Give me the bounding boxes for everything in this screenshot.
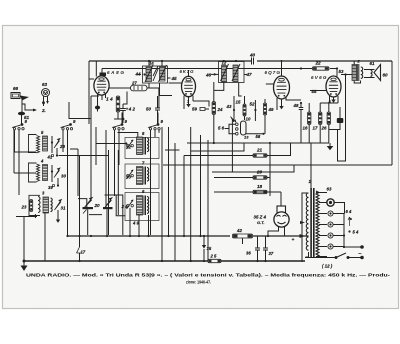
svg-text:41: 41 (47, 155, 53, 160)
capacitor C35 (202, 236, 212, 261)
svg-text:18: 18 (257, 184, 263, 189)
resistor R20 (214, 170, 270, 180)
coil L23 (21, 195, 41, 215)
svg-text:+: + (292, 238, 295, 243)
svg-text:UNDA RADIO. — Mod. « Tri Unda: UNDA RADIO. — Mod. « Tri Unda R 53|9 ». … (26, 273, 391, 278)
svg-text:31: 31 (61, 206, 66, 211)
wire antenna to node 2 (22, 104, 46, 113)
svg-text:6 V 6 G: 6 V 6 G (311, 75, 327, 80)
svg-text:5 4: 5 4 (353, 230, 359, 235)
pilot lamp 63 (42, 82, 50, 97)
svg-text:4 2: 4 2 (128, 106, 136, 111)
svg-text:6 K 7 G: 6 K 7 G (180, 69, 195, 74)
svg-text:2.: 2. (41, 108, 46, 113)
svg-text:13: 13 (244, 135, 249, 140)
label 47 (244, 72, 252, 77)
resistor R58 (192, 101, 209, 112)
switch contact leads D (151, 113, 160, 236)
band switch contact S1 (12, 119, 28, 130)
label 1 (309, 143, 312, 188)
band switch contact S4 (148, 119, 164, 130)
svg-text:50: 50 (146, 107, 151, 112)
U1 pin leads (89, 79, 131, 106)
svg-text:46: 46 (205, 73, 212, 78)
svg-text:6 A 8 G: 6 A 8 G (107, 70, 124, 75)
svg-text:s: s (350, 217, 352, 221)
coil L3 (42, 191, 52, 214)
label 4 arrow (328, 99, 332, 104)
ground U3 (279, 106, 283, 109)
svg-text:5 6: 5 6 (218, 126, 225, 131)
socket leads (334, 203, 345, 247)
rectifier U5 35Z4GT (274, 206, 289, 227)
plus node (292, 234, 306, 243)
wire x162 (161, 127, 163, 261)
wire y165 B+ line (59, 150, 393, 165)
IF transformer T2 box (219, 62, 245, 83)
svg-text:37: 37 (269, 251, 274, 256)
tube U3 6Q7G (274, 76, 290, 99)
label 2 (357, 59, 361, 64)
capacitor C40 (249, 53, 256, 65)
trimmer 32 (126, 140, 133, 150)
svg-text:20: 20 (256, 170, 263, 175)
svg-text:20: 20 (94, 203, 101, 208)
T4 tap arrow (300, 221, 305, 224)
tube U1 6A8G (94, 76, 109, 95)
svg-text:12: 12 (222, 61, 227, 66)
wire y151 (191, 143, 245, 151)
capacitor C10 blob (329, 107, 343, 130)
shield box osc stage 3 (125, 193, 159, 221)
resistor R18b lead (267, 191, 270, 193)
wire osc leads (130, 208, 149, 235)
shield box osc stage 2 (125, 164, 159, 189)
svg-text:48: 48 (293, 103, 299, 108)
U1 grid cap (96, 61, 106, 77)
contacts 41 (47, 148, 59, 160)
coil L4 (29, 159, 48, 183)
svg-text:zione: 1946-47.: zione: 1946-47. (186, 280, 211, 285)
trimmer 29 (51, 136, 66, 153)
lamp leads (42, 96, 49, 106)
label U3 (265, 70, 281, 75)
wire AVC bus (66, 235, 308, 237)
svg-text:17: 17 (81, 250, 86, 255)
wire x232 down (231, 120, 233, 172)
capacitor C36 (246, 236, 260, 261)
svg-text:10: 10 (246, 117, 251, 122)
switch contact leads B (63, 96, 99, 235)
label 13 (244, 133, 265, 140)
T2 primary winding (222, 66, 227, 83)
shield box osc stage 1 (125, 138, 159, 159)
svg-text:2 4: 2 4 (121, 204, 129, 209)
wire rect top (254, 191, 281, 193)
wire T2 leads (187, 83, 242, 104)
svg-text:45: 45 (171, 76, 178, 81)
svg-text:1a: 1a (149, 61, 154, 66)
label 54 (348, 230, 359, 235)
socket 2 (328, 211, 333, 216)
svg-text:66: 66 (13, 86, 19, 91)
U2 grid lead (169, 70, 189, 83)
contacts 39 (48, 178, 59, 190)
svg-text:55: 55 (312, 89, 317, 94)
power transformer T4 (302, 188, 319, 262)
U5 leads (268, 192, 285, 236)
resistor R14 (106, 96, 123, 119)
wire left bus drop (88, 61, 90, 124)
T1 primary winding (146, 67, 152, 82)
svg-text:40: 40 (249, 53, 256, 58)
socket 5 (328, 244, 333, 249)
label 49b (132, 221, 139, 226)
coil L6 (137, 189, 149, 215)
output transformer T3 (352, 61, 363, 83)
label 43 (226, 96, 236, 120)
label 44 (135, 72, 146, 77)
T1 secondary winding (160, 67, 166, 82)
resistor R22 (313, 61, 330, 71)
svg-text:61: 61 (370, 61, 375, 66)
label 45 (168, 76, 178, 81)
svg-text:32: 32 (126, 145, 131, 150)
socket 4 (328, 233, 333, 238)
svg-text:2 5: 2 5 (210, 254, 217, 259)
wire x184 (183, 156, 185, 236)
socket 3 (328, 222, 333, 227)
junction dots top bus (148, 60, 338, 70)
svg-text:53: 53 (339, 69, 344, 74)
resistor R21 (184, 143, 291, 157)
U2 pin leads (184, 96, 193, 110)
label U5 (254, 215, 267, 226)
coil L5 (29, 130, 48, 153)
resistor R27 (131, 81, 148, 91)
svg-text:52: 52 (250, 102, 255, 107)
tuning cap 20 (83, 198, 101, 214)
band switch contact S3 (112, 119, 128, 130)
svg-text:26: 26 (321, 126, 327, 131)
wire y172 (212, 165, 294, 172)
caption line 2 (186, 280, 211, 285)
wire x208 (207, 140, 209, 261)
wire to output transformer (338, 75, 353, 162)
band switch contact S2 (61, 119, 77, 130)
svg-text:35: 35 (207, 246, 212, 251)
volume pot 56 (218, 117, 246, 136)
svg-text:23: 23 (21, 205, 27, 210)
wire mains (305, 247, 362, 258)
capacitor C42 (114, 104, 135, 123)
IF transformer T1 box (143, 66, 168, 83)
svg-text:43: 43 (226, 104, 232, 109)
resistor R18 (214, 184, 270, 194)
svg-text:58: 58 (256, 134, 261, 139)
coil L8 (137, 131, 149, 155)
svg-text:63: 63 (42, 82, 48, 87)
tuning cap 20 leads (78, 199, 102, 235)
svg-text:21: 21 (256, 148, 263, 153)
wire left border (14, 130, 36, 173)
resistor R24 (212, 82, 223, 143)
ground main (21, 260, 28, 272)
tube U4 6V6G (326, 76, 341, 97)
label 55 (310, 89, 326, 94)
wire x200.5 (200, 135, 202, 235)
wire screen bus (102, 69, 337, 76)
trimmer 31 (55, 200, 66, 223)
mains switch 12 (322, 253, 350, 269)
svg-text:33: 33 (126, 175, 131, 180)
switch 17 (77, 247, 86, 261)
wire main ground bus (23, 260, 305, 262)
svg-text:G.T.: G.T. (257, 220, 264, 225)
svg-text:63: 63 (327, 187, 332, 192)
T1 core hatch (153, 66, 158, 81)
antenna arrow (20, 96, 29, 113)
wire x190.7 (190, 127, 192, 261)
ground U1 (95, 106, 100, 112)
svg-text:24: 24 (217, 107, 223, 112)
svg-text:42: 42 (236, 228, 242, 233)
label 10 (246, 117, 251, 122)
svg-text:1 4: 1 4 (106, 97, 113, 103)
label U1 (107, 70, 124, 75)
ground U4 (331, 100, 335, 103)
label 12 (222, 61, 227, 66)
pot 15 (236, 96, 247, 120)
svg-text:59: 59 (192, 107, 197, 112)
svg-text:27: 27 (131, 81, 137, 86)
ground U2 (186, 104, 190, 107)
shield box left (70, 149, 78, 196)
mains plug (358, 245, 364, 259)
wire x168.5 (168, 127, 170, 235)
svg-text:29: 29 (59, 144, 65, 149)
svg-text:4 9: 4 9 (132, 221, 139, 226)
wire left coil leads (16, 213, 45, 261)
switch contact leads A (15, 116, 22, 195)
svg-text:22: 22 (315, 61, 322, 66)
T2 trimmer arrows (221, 64, 241, 81)
label 1a (149, 61, 154, 66)
resistor R25 (208, 254, 221, 263)
socket 63 (327, 187, 335, 207)
capacitor C50 (146, 96, 160, 124)
svg-text:6 4: 6 4 (346, 209, 352, 214)
wire sec leads (316, 193, 327, 257)
trimmer 33 (126, 170, 133, 180)
wire x344 drop (343, 214, 345, 249)
svg-text:17: 17 (313, 126, 318, 131)
capacitor C37 (263, 236, 274, 261)
tuning cap 2nd (103, 198, 113, 209)
svg-text:~: ~ (358, 251, 362, 258)
tube U2 6K7G (182, 76, 196, 96)
wire x105 (105, 130, 107, 207)
wire top B+ bus (89, 60, 392, 62)
svg-text:36: 36 (246, 251, 251, 256)
svg-text:6 Q 7 G: 6 Q 7 G (265, 70, 281, 75)
svg-text:60: 60 (383, 73, 389, 78)
plug 51 (18, 112, 30, 124)
svg-text:( 12 ): ( 12 ) (322, 264, 333, 269)
coil L7 (137, 161, 149, 185)
wire T1 leads (141, 62, 172, 96)
U3 grid lead (266, 61, 282, 84)
speaker 60 (364, 61, 388, 81)
wire x79.5 drop (79, 155, 81, 247)
wire right B+ drop (391, 61, 393, 165)
resistor R26 (321, 103, 331, 143)
label U4 (311, 75, 327, 80)
T2 secondary winding (233, 65, 238, 82)
shield box osc (109, 150, 119, 235)
label 52 (250, 100, 257, 121)
label U2 (180, 69, 195, 74)
trimmer 30 (51, 165, 67, 182)
arrow 64 (348, 217, 352, 226)
label 53 (339, 69, 347, 76)
resistor R16 (303, 103, 311, 143)
svg-text:35 Z 4: 35 Z 4 (254, 215, 267, 220)
svg-text:30: 30 (61, 174, 66, 179)
wire R27 leads (123, 88, 159, 108)
resistor R49 (263, 99, 274, 134)
capacitor C48 (293, 102, 304, 143)
antenna plug 66 (11, 86, 20, 99)
label 46 (205, 73, 219, 78)
wire x175 (174, 143, 176, 261)
svg-text:16: 16 (303, 126, 308, 131)
tuning cap 2nd leads (105, 195, 126, 235)
U4 leads (330, 69, 352, 104)
caption line 1 (26, 273, 391, 278)
label 64 (346, 209, 352, 214)
ground mid-right (327, 143, 334, 150)
switch contact leads C (115, 113, 138, 197)
wire AVC line (96, 142, 329, 196)
resistor R42 (233, 228, 253, 244)
U3 pin leads (277, 98, 301, 111)
T1 trimmer arrows (145, 65, 167, 82)
trimmer 24b (121, 200, 134, 209)
resistor R17 (313, 103, 339, 143)
svg-text:49: 49 (268, 107, 274, 112)
svg-text:15: 15 (236, 100, 241, 105)
